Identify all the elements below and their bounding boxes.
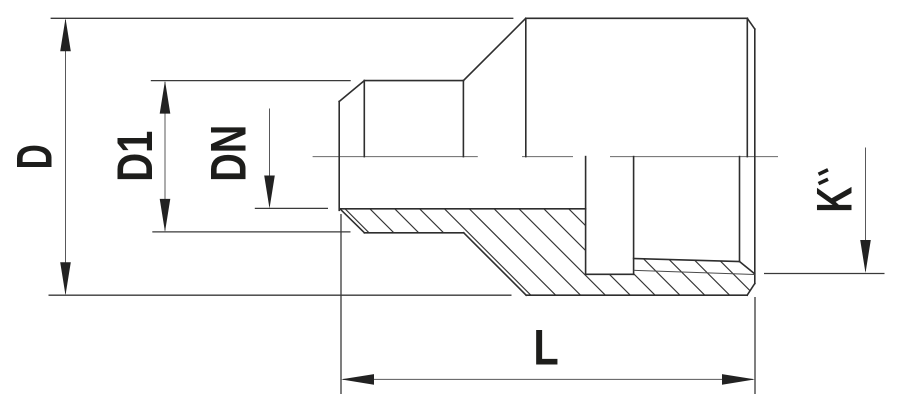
thread end vertical bbox=[739, 157, 741, 262]
cone small-end vertical bbox=[462, 81, 464, 157]
body top edge bbox=[526, 17, 748, 19]
D extension line top bbox=[51, 17, 514, 19]
cone big-end vertical bbox=[525, 18, 527, 156]
dimension DN bbox=[200, 109, 328, 209]
K arrow down bbox=[860, 240, 871, 273]
DN extension line bbox=[255, 207, 328, 209]
thread countersink diagonal bbox=[740, 262, 755, 274]
small end top edge bbox=[364, 80, 463, 82]
svg-text:D1: D1 bbox=[107, 131, 163, 182]
D dimension line bbox=[65, 20, 67, 294]
K extension line bbox=[764, 273, 885, 275]
left top chamfer bbox=[339, 81, 364, 102]
thin object lines bbox=[634, 270, 755, 274]
D1 dimension line bbox=[164, 82, 166, 231]
centerline (axis) bbox=[313, 156, 778, 158]
chamfer edge vertical bbox=[363, 81, 365, 157]
right top chamfer bbox=[747, 18, 755, 29]
D1 arrow up bbox=[160, 81, 171, 114]
fitting outline: external view (top half) bbox=[339, 18, 755, 295]
right chamfer edge vertical bbox=[746, 18, 748, 156]
body bottom edge bbox=[526, 294, 747, 296]
D1 arrow down bbox=[160, 199, 171, 232]
dimension D bbox=[7, 18, 513, 295]
right bottom chamfer bbox=[747, 284, 755, 296]
svg-text:D: D bbox=[7, 144, 63, 169]
right face bbox=[754, 29, 756, 284]
L arrow right bbox=[722, 374, 755, 385]
cone bottom diagonal bbox=[464, 233, 527, 295]
DN arrow down bbox=[264, 176, 275, 209]
L extension line right bbox=[754, 297, 756, 394]
D extension line bottom bbox=[49, 294, 512, 296]
dimension D1 bbox=[107, 81, 351, 232]
D arrow down bbox=[60, 262, 71, 295]
recess right wall bbox=[633, 157, 635, 275]
L dimension line bbox=[343, 378, 753, 380]
hatching of cut section bbox=[335, 199, 828, 319]
cone top diagonal bbox=[463, 18, 525, 80]
D arrow up bbox=[60, 18, 71, 51]
D1 extension line top bbox=[151, 80, 351, 82]
D1 extension line bottom bbox=[152, 231, 350, 233]
inch marks bbox=[819, 170, 829, 184]
thread root line bbox=[634, 270, 755, 274]
recess left wall bbox=[585, 157, 587, 275]
bore line bbox=[340, 208, 586, 210]
recess bottom bbox=[586, 273, 634, 275]
svg-text:L: L bbox=[533, 319, 558, 376]
svg-text:DN: DN bbox=[200, 125, 257, 182]
dimension K" bbox=[764, 148, 885, 274]
dimension L bbox=[341, 214, 755, 394]
fitting outline: section (bottom half) bbox=[340, 157, 755, 296]
DN dimension line bbox=[269, 109, 271, 207]
thread crest line bbox=[634, 259, 740, 262]
left bottom chamfer bbox=[340, 209, 365, 233]
left face bbox=[338, 102, 340, 211]
K dimension line bbox=[865, 148, 867, 272]
small end bottom edge bbox=[364, 232, 463, 234]
L arrow left bbox=[341, 374, 374, 385]
svg-text:K: K bbox=[808, 186, 863, 212]
L extension line left bbox=[340, 214, 342, 394]
